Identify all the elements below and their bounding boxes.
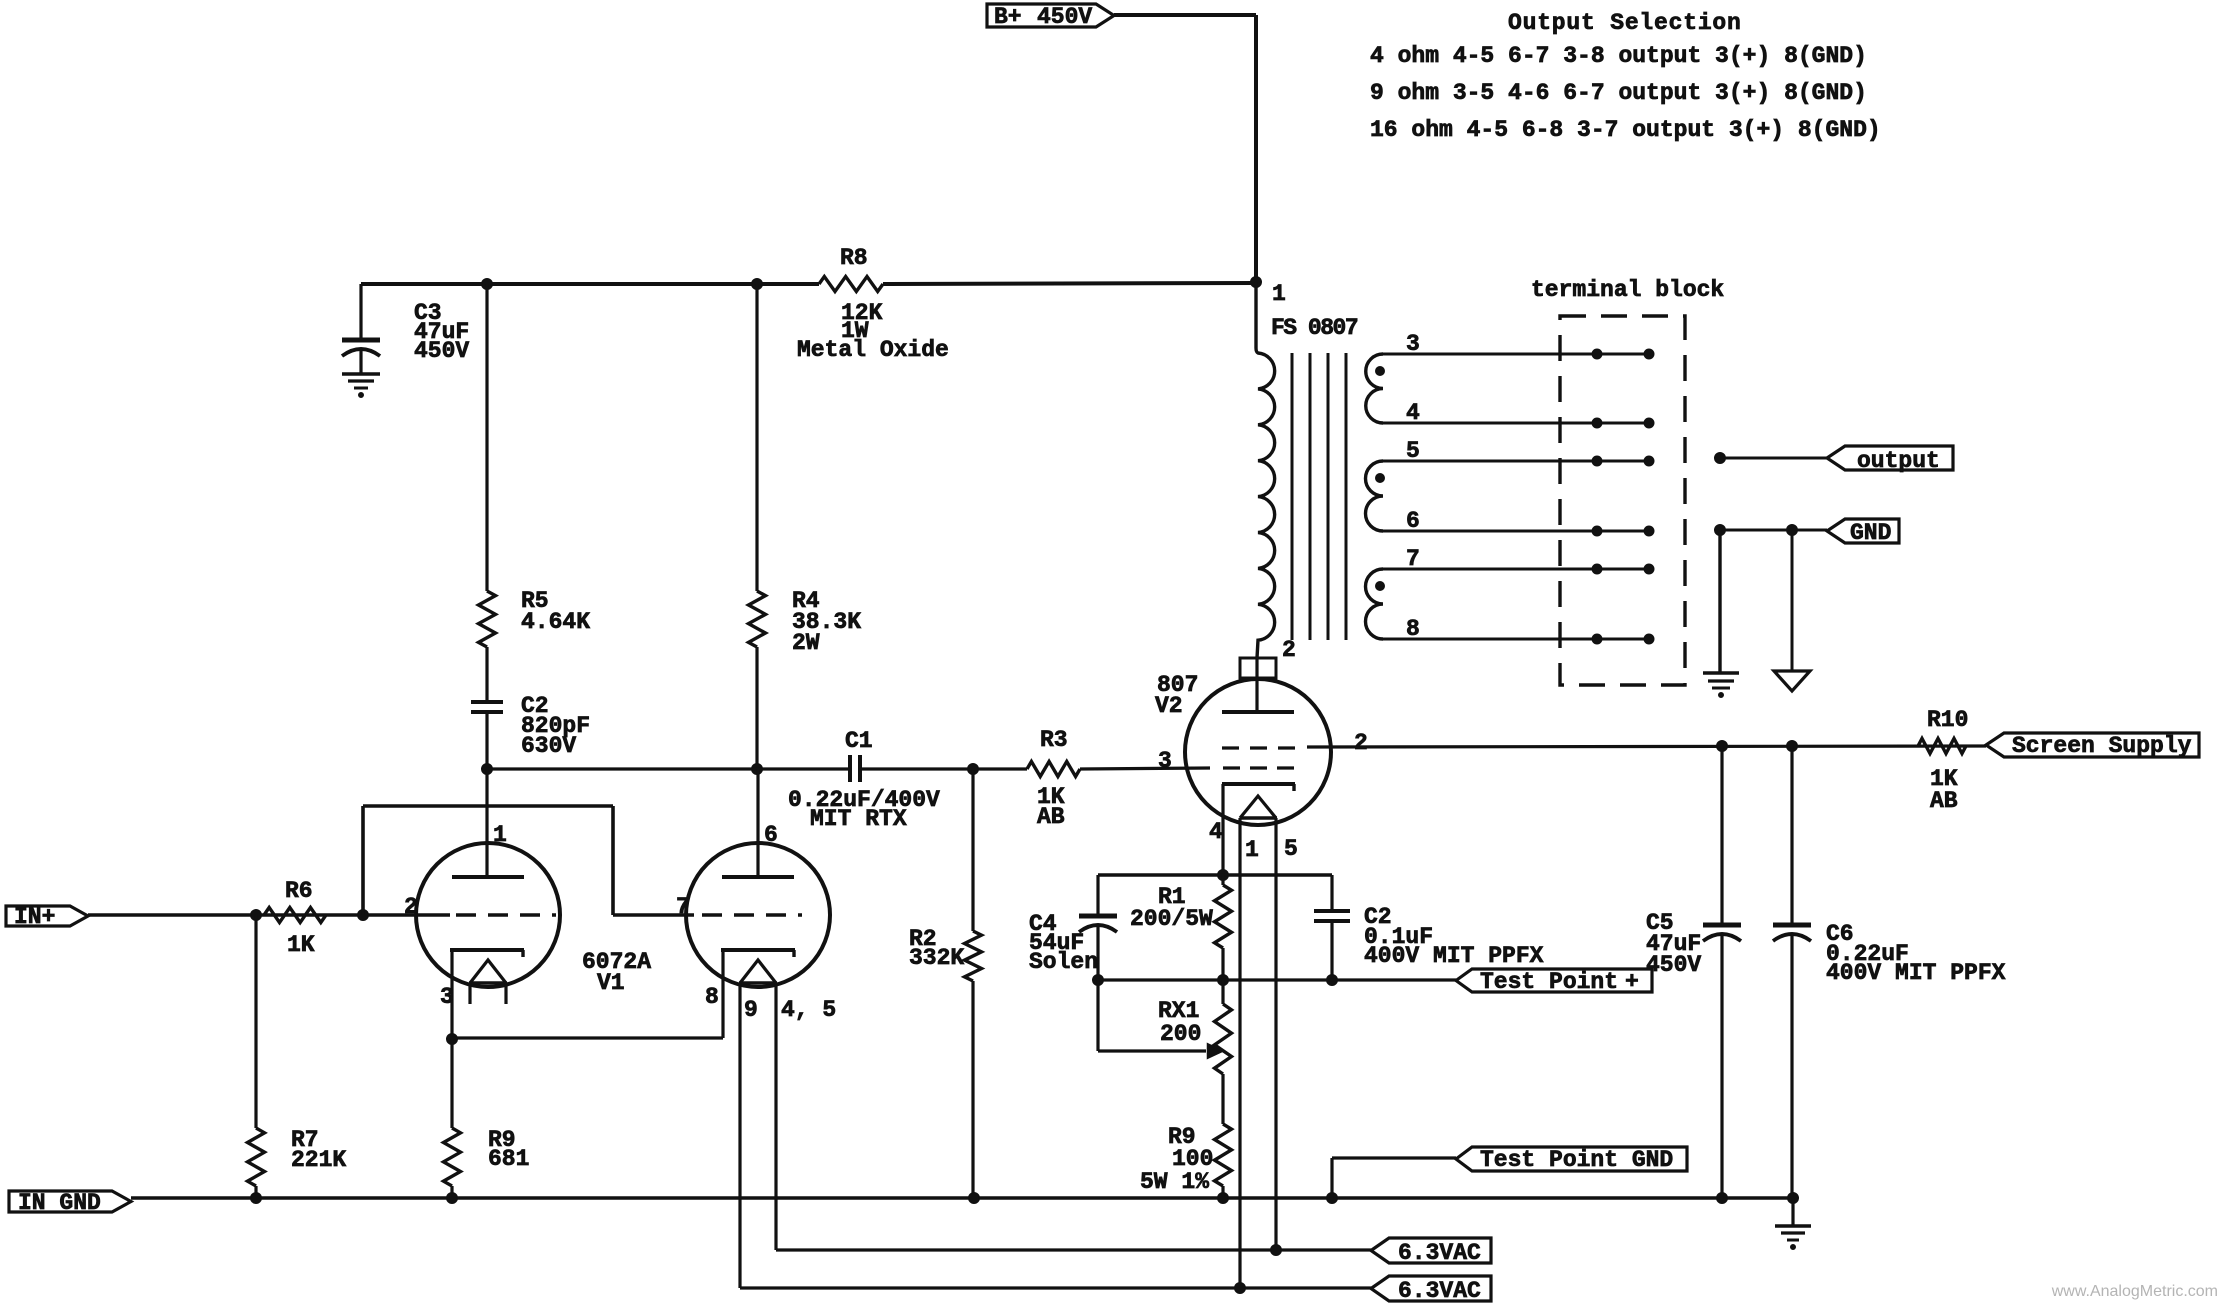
- svg-text:IN GND: IN GND: [18, 1190, 101, 1216]
- svg-text:7: 7: [1406, 546, 1420, 572]
- svg-text:AB: AB: [1930, 788, 1958, 814]
- svg-text:3: 3: [1406, 331, 1420, 357]
- svg-text:200/5W: 200/5W: [1130, 906, 1213, 932]
- svg-text:6.3VAC: 6.3VAC: [1398, 1240, 1481, 1266]
- svg-text:630V: 630V: [521, 733, 576, 759]
- svg-text:2: 2: [1282, 637, 1296, 663]
- svg-text:1K: 1K: [287, 932, 315, 958]
- svg-text:3: 3: [1158, 748, 1172, 774]
- svg-text:R6: R6: [285, 878, 313, 904]
- svg-text:Test Point GND: Test Point GND: [1480, 1147, 1673, 1173]
- svg-text:2: 2: [1354, 730, 1368, 756]
- svg-text:1: 1: [1272, 281, 1286, 307]
- svg-text:450V: 450V: [1646, 952, 1701, 978]
- svg-text:1: 1: [493, 822, 507, 848]
- svg-text:16 ohm 4-5 6-8 3-7 output 3(+): 16 ohm 4-5 6-8 3-7 output 3(+) 8(GND): [1370, 117, 1881, 143]
- svg-text:Screen Supply: Screen Supply: [2012, 733, 2192, 759]
- svg-text:V2: V2: [1155, 693, 1183, 719]
- svg-text:R8: R8: [840, 245, 868, 271]
- svg-text:6: 6: [764, 822, 778, 848]
- svg-text:5: 5: [1406, 438, 1420, 464]
- svg-text:681: 681: [488, 1146, 529, 1172]
- svg-text:3: 3: [440, 984, 454, 1010]
- svg-text:200: 200: [1160, 1021, 1201, 1047]
- svg-text:Output Selection: Output Selection: [1508, 10, 1742, 36]
- svg-text:IN+: IN+: [14, 904, 55, 930]
- svg-text:450V: 450V: [1037, 4, 1092, 30]
- svg-text:MIT RTX: MIT RTX: [810, 806, 907, 832]
- svg-text:450V: 450V: [414, 338, 469, 364]
- svg-text:5: 5: [1284, 836, 1298, 862]
- svg-text:R10: R10: [1927, 707, 1968, 733]
- svg-text:4.64K: 4.64K: [521, 609, 590, 635]
- svg-text:B+: B+: [994, 4, 1022, 30]
- svg-text:6.3VAC: 6.3VAC: [1398, 1278, 1481, 1304]
- svg-text:4, 5: 4, 5: [781, 997, 836, 1023]
- svg-text:6: 6: [1406, 508, 1420, 534]
- svg-text:terminal block: terminal block: [1531, 277, 1724, 303]
- svg-text:400V MIT PPFX: 400V MIT PPFX: [1364, 943, 1544, 969]
- svg-text:4: 4: [1406, 400, 1420, 426]
- svg-text:AB: AB: [1037, 804, 1065, 830]
- svg-text:R3: R3: [1040, 727, 1068, 753]
- svg-text:+: +: [1625, 969, 1639, 995]
- svg-text:9: 9: [744, 997, 758, 1023]
- svg-text:2: 2: [404, 894, 418, 920]
- svg-text:C1: C1: [845, 728, 873, 754]
- svg-text:2W: 2W: [792, 630, 820, 656]
- svg-text:8: 8: [1406, 616, 1420, 642]
- svg-text:Metal Oxide: Metal Oxide: [797, 337, 949, 363]
- svg-text:V1: V1: [597, 970, 625, 996]
- svg-text:1: 1: [1245, 837, 1259, 863]
- svg-text:400V MIT PPFX: 400V MIT PPFX: [1826, 960, 2006, 986]
- svg-text:Test Point: Test Point: [1480, 969, 1618, 995]
- svg-text:4 ohm 4-5 6-7 3-8 output 3(+): 4 ohm 4-5 6-7 3-8 output 3(+) 8(GND): [1370, 43, 1867, 69]
- svg-text:output: output: [1857, 448, 1940, 474]
- svg-text:4: 4: [1209, 819, 1223, 845]
- svg-text:www.AnalogMetric.com: www.AnalogMetric.com: [2051, 1283, 2218, 1300]
- svg-text:FS 0807: FS 0807: [1271, 315, 1358, 341]
- svg-text:221K: 221K: [291, 1147, 346, 1173]
- svg-text:9 ohm 3-5 4-6 6-7 output 3(+): 9 ohm 3-5 4-6 6-7 output 3(+) 8(GND): [1370, 80, 1867, 106]
- svg-text:332K: 332K: [909, 945, 964, 971]
- svg-text:GND: GND: [1850, 520, 1891, 546]
- svg-text:5W 1%: 5W 1%: [1140, 1169, 1209, 1195]
- svg-text:Solen: Solen: [1029, 949, 1098, 975]
- svg-text:8: 8: [705, 984, 719, 1010]
